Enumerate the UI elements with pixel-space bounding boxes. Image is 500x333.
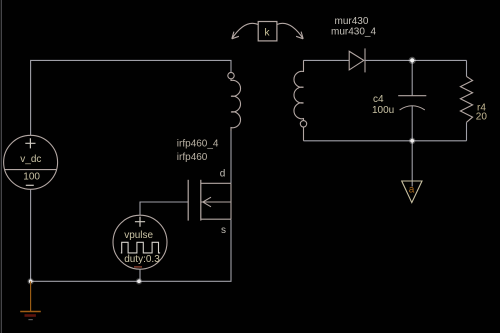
svg-text:duty:0.3: duty:0.3 [124,254,160,265]
svg-text:s: s [221,225,226,236]
svg-text:d: d [220,168,226,179]
capacitor C4 top plate [398,95,426,97]
junction dot vpulse bottom [136,278,142,284]
ground 0 bar [20,311,41,313]
svg-text:mur430_4: mur430_4 [331,27,376,38]
svg-text:irfp460: irfp460 [177,152,208,163]
net connector a triangle [402,181,422,203]
mosfet bulk arrow [201,197,231,207]
wire vdc bottom to ground junction [30,189,32,281]
svg-text:20: 20 [476,112,488,123]
resistor R4 zigzag [460,76,472,122]
svg-text:v_dc: v_dc [20,154,41,165]
wire resistor to bottom corner [466,122,468,141]
transformer primary winding L1 [228,72,241,131]
mosfet source stub [201,218,231,220]
svg-text:100u: 100u [372,105,394,116]
mosfet M1 gate bar [187,180,189,221]
ground 0 stem [30,281,32,311]
coupling right arrow [277,23,303,38]
v_dc plus sign [25,138,35,148]
wire cap top [411,60,413,95]
svg-text:a: a [409,184,415,195]
svg-text:irfp460_4: irfp460_4 [177,138,219,149]
wire bottom return [31,219,231,281]
wire cap bottom [411,106,413,141]
svg-text:vpulse: vpulse [124,230,153,241]
window border left edge [1,0,2,333]
coupling left arrow [232,23,258,38]
v_dc minus sign [26,184,34,186]
wire top of primary loop [31,60,231,135]
coupling K1 box [258,22,277,41]
mosfet drain stub [201,182,231,184]
v_dc divider chord [5,169,56,171]
vpulse waveform [121,242,160,253]
pulse source vpulse circle [113,215,167,269]
mosfet right bus [230,183,232,219]
wire secondary bottom rail [304,140,467,142]
ground small mark [28,319,32,321]
transformer secondary winding L2 [294,60,307,141]
wire vpulse top to gate [140,202,188,215]
mosfet channel bar [200,180,202,221]
diode D1 triangle [349,51,364,70]
ground 0 label bar [25,314,36,317]
junction dot diode-cap [409,57,416,64]
wire primary coil to drain [230,131,232,183]
wire secondary top to diode [304,59,350,61]
svg-text:k: k [265,28,271,39]
vpulse plus sign [135,217,145,227]
wire right side down to resistor [466,60,468,76]
svg-text:c4: c4 [373,94,384,105]
svg-text:mur430: mur430 [335,16,369,27]
junction dot cap-bottom [409,138,415,144]
vpulse minus sign [134,266,142,268]
voltage source V1 v_dc circle [4,135,58,189]
wire diode to right corner [365,59,467,61]
svg-text:100: 100 [23,172,40,183]
junction dot vdc-ground [27,278,33,284]
wire to net connector a [411,141,413,187]
wire vpulse bottom [139,269,141,281]
diode D1 cathode bar [364,48,366,72]
capacitor C4 curved plate [400,106,425,110]
